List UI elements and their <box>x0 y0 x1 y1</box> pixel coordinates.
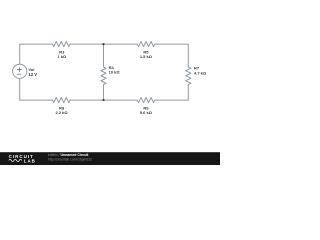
wire middle branch upper <box>103 44 105 67</box>
svg-text:5.6 kΩ: 5.6 kΩ <box>140 110 153 115</box>
resistor R7 <box>186 67 191 85</box>
junction node top <box>102 43 104 45</box>
svg-text:12 V: 12 V <box>28 72 37 77</box>
voltage source Vol circle body <box>13 64 27 78</box>
junction node bottom <box>102 99 104 101</box>
resistor R9 <box>137 98 155 103</box>
svg-text:10 kΩ: 10 kΩ <box>109 70 121 75</box>
wire top-middle segment <box>70 43 137 45</box>
resistor R8 <box>53 98 71 103</box>
logo wave <box>9 159 22 161</box>
resistor R5 <box>137 42 155 47</box>
wire right-bottom segment <box>155 84 189 100</box>
wire bottom-middle segment <box>70 99 137 101</box>
footer black bar <box>0 152 220 165</box>
svg-text:Vol: Vol <box>28 67 34 72</box>
wire top-left segment <box>20 44 53 64</box>
resistor R4 <box>101 67 106 85</box>
voltage source Vol plus mark <box>17 67 22 72</box>
wire bottom-left segment <box>20 78 53 100</box>
wire middle branch lower <box>103 85 105 101</box>
svg-text:http://circuitlab.com/c/bpm632: http://circuitlab.com/c/bpm632 <box>48 157 92 161</box>
wire top-right segment <box>155 44 189 67</box>
svg-text:LAB: LAB <box>24 158 36 163</box>
resistor R3 <box>53 42 71 47</box>
svg-text:4.7 kΩ: 4.7 kΩ <box>194 70 207 75</box>
svg-text:1.5 kΩ: 1.5 kΩ <box>140 54 153 59</box>
svg-text:1 kΩ: 1 kΩ <box>57 54 67 59</box>
voltage source Vol minus mark <box>17 73 21 75</box>
svg-text:2.2 kΩ: 2.2 kΩ <box>55 110 68 115</box>
